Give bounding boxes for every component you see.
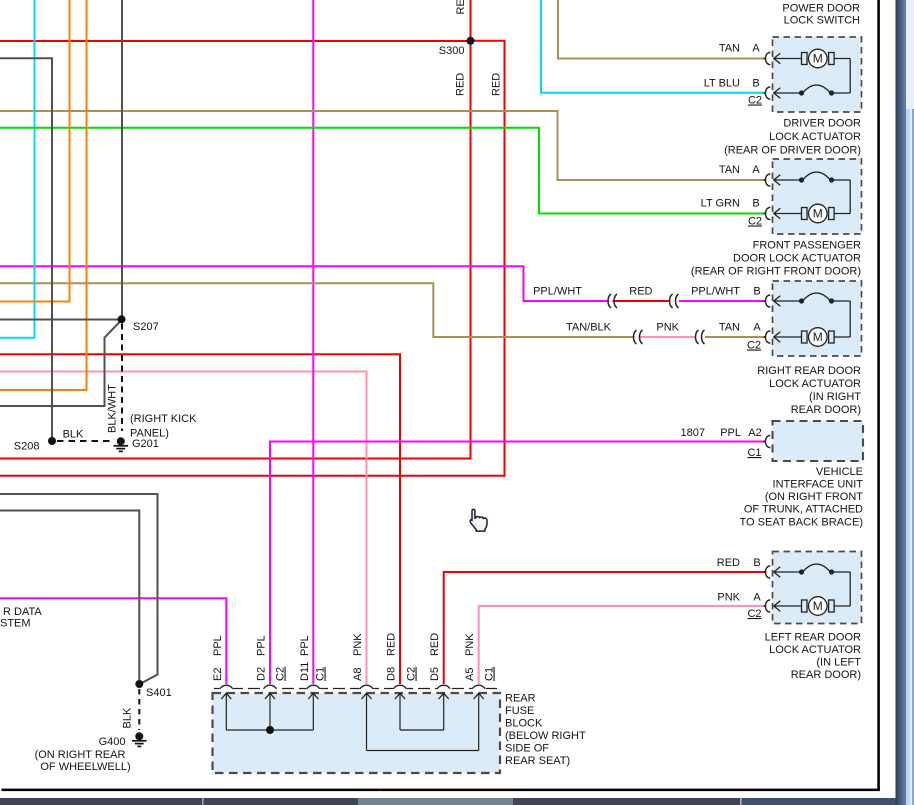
svg-text:M: M [813, 330, 823, 344]
front passenger door lock actuator U2 motor wires [774, 213, 850, 215]
wire GRY left from splice S207 [0, 319, 122, 321]
wire TAN to driver door actuator A [558, 0, 767, 59]
taskbar right segment [742, 798, 896, 805]
svg-text:SIDE OF: SIDE OF [505, 743, 549, 755]
svg-text:RED: RED [629, 286, 652, 298]
left rear door lock actuator U4 switch contact [799, 564, 834, 575]
front passenger door lock actuator U2 pin A arrow [774, 175, 781, 185]
right rear door lock actuator U3 pin B arrow [774, 296, 781, 306]
wire PPL/WHT to right rear actuator B [0, 266, 609, 301]
driver door lock actuator U1 box [773, 37, 862, 112]
svg-text:(BELOW RIGHT: (BELOW RIGHT [505, 730, 586, 742]
fuse block pin A5 connector bump [472, 684, 486, 690]
svg-text:(REAR OF DRIVER DOOR): (REAR OF DRIVER DOOR) [724, 145, 861, 157]
svg-text:PPL: PPL [256, 635, 268, 656]
svg-text:VEHICLE: VEHICLE [816, 466, 863, 478]
svg-text:A: A [753, 322, 761, 334]
svg-text:A: A [752, 43, 760, 55]
splice S401 [135, 680, 143, 688]
svg-text:(IN RIGHT: (IN RIGHT [809, 391, 861, 403]
fuse block pin D11 arrow [308, 693, 318, 699]
svg-text:E2: E2 [212, 668, 224, 681]
svg-text:C2: C2 [406, 667, 418, 681]
left rear door lock actuator U4 pin A arrow [774, 601, 781, 611]
svg-text:TAN/BLK: TAN/BLK [566, 322, 612, 334]
svg-text:G201: G201 [132, 438, 159, 450]
wire TAN/BLK to right rear actuator A [0, 283, 635, 337]
fuse block pin A5 internal wire [478, 694, 480, 751]
svg-text:PPL: PPL [212, 635, 224, 656]
svg-text:A: A [753, 592, 761, 604]
svg-text:(IN LEFT: (IN LEFT [816, 657, 861, 669]
fuse block pin D5 connector bump [437, 684, 451, 690]
wire RED vertical through S300 down then left [0, 0, 471, 459]
svg-text:REAR SEAT): REAR SEAT) [505, 755, 570, 767]
svg-text:TO SEAT BACK BRACE): TO SEAT BACK BRACE) [740, 517, 863, 529]
wire PPL/WHT segment at right rear B [679, 300, 767, 302]
left rear door lock actuator U4 box [773, 552, 862, 624]
left rear door lock actuator U4 motor M [802, 597, 835, 616]
svg-text:(ON RIGHT REAR: (ON RIGHT REAR [35, 749, 126, 761]
fuse block internal junction at D2 [266, 726, 274, 734]
svg-text:C2: C2 [275, 667, 287, 681]
svg-text:PNK: PNK [656, 322, 679, 334]
mouse cursor hand pointer [470, 509, 487, 531]
driver door lock actuator U1 motor wires [774, 58, 850, 60]
svg-text:RED: RED [386, 633, 398, 656]
svg-text:LT GRN: LT GRN [701, 198, 740, 210]
svg-text:A: A [752, 164, 760, 176]
svg-text:(REAR OF RIGHT FRONT DOOR): (REAR OF RIGHT FRONT DOOR) [691, 266, 861, 278]
right rear door lock actuator U3 box [773, 281, 862, 356]
svg-text:OF TRUNK, ATTACHED: OF TRUNK, ATTACHED [744, 504, 863, 516]
svg-text:R DATA: R DATA [3, 606, 42, 618]
svg-text:RIGHT REAR DOOR: RIGHT REAR DOOR [757, 365, 861, 377]
svg-text:S207: S207 [133, 321, 159, 333]
svg-text:C2: C2 [748, 95, 762, 107]
ground G201 [114, 437, 129, 451]
svg-text:M: M [813, 599, 823, 613]
svg-text:BLK: BLK [122, 707, 134, 728]
driver door lock actuator U1 right internal wire [849, 59, 851, 94]
svg-text:RED: RED [455, 73, 467, 96]
svg-text:A8: A8 [352, 668, 364, 681]
page frame bottom border [2, 789, 380, 792]
svg-text:1807: 1807 [681, 427, 705, 439]
scrollbar thumb upper [906, 0, 914, 109]
fuse block pin A8 arrow [362, 693, 372, 699]
svg-text:D8: D8 [386, 667, 398, 681]
fuse block pin E2 connector bump [220, 684, 234, 690]
wire PNK left rear actuator A to fuse pin A5 [479, 606, 767, 685]
svg-text:C1: C1 [747, 447, 761, 459]
svg-text:OF WHEELWELL): OF WHEELWELL) [40, 761, 130, 773]
wire TAN to front passenger actuator A [0, 111, 767, 180]
svg-text:B: B [752, 78, 759, 90]
wire PNK to fuse pin A8 [0, 372, 367, 686]
right rear door lock actuator U3 right internal wire [849, 301, 851, 337]
wire ORN left exit lower [0, 0, 87, 390]
svg-text:S300: S300 [439, 45, 465, 57]
wire TAN segment at right rear A [705, 336, 767, 338]
svg-text:(ON RIGHT FRONT: (ON RIGHT FRONT [765, 491, 863, 503]
fuse block internal bus A8-A5 [367, 750, 479, 752]
svg-text:D11: D11 [299, 662, 311, 681]
svg-text:LOCK ACTUATOR: LOCK ACTUATOR [769, 131, 861, 143]
fuse block pin E2 internal wire [225, 694, 227, 731]
fuse block pin D8 arrow [395, 693, 405, 699]
wire PPL to fuse pin E2 [0, 598, 226, 685]
svg-text:RED: RED [491, 73, 503, 96]
front passenger door lock actuator U2 right internal wire [849, 180, 851, 214]
right rear door lock actuator U3 switch wires [774, 300, 850, 302]
wire BLK/WHT dashed S207 to G201 [121, 324, 123, 432]
left rear door lock actuator U4 pin B arrow [774, 567, 781, 577]
svg-text:C1: C1 [484, 667, 496, 681]
fuse block pin D2 internal wire [269, 694, 271, 731]
svg-text:BLK: BLK [63, 429, 84, 441]
svg-text:G400: G400 [99, 736, 126, 748]
fuse block connector line [214, 688, 497, 690]
svg-text:B: B [753, 286, 760, 298]
wire RED left rear actuator B to fuse pin D5 [444, 572, 767, 685]
wire ORN left exit upper [0, 0, 70, 302]
wire BLK dashed S401 to G400 [138, 689, 140, 730]
right rear door lock actuator U3 pin A arrow [774, 332, 781, 342]
svg-text:TAN: TAN [719, 322, 740, 334]
svg-text:D2: D2 [256, 667, 268, 681]
fuse block pin A8 connector bump [360, 684, 374, 690]
fuse block internal bus E2-D2-D11 [226, 729, 313, 731]
fuse block pin D8 internal wire [399, 694, 401, 731]
fuse block pin D8 connector bump [393, 684, 407, 690]
svg-text:PNK: PNK [352, 633, 364, 656]
svg-text:LOCK SWITCH: LOCK SWITCH [784, 15, 860, 27]
wire GRY inner to splice S401 [0, 511, 139, 681]
svg-text:M: M [813, 207, 823, 221]
taskbar [0, 798, 896, 805]
driver door lock actuator U1 connector half at pin B [764, 87, 770, 99]
fuse block pin D2 arrow [265, 693, 275, 699]
svg-text:LOCK ACTUATOR: LOCK ACTUATOR [769, 644, 861, 656]
svg-text:PPL/WHT: PPL/WHT [691, 286, 740, 298]
wire GRY to splice S208 [0, 58, 52, 437]
fuse block pin A5 arrow [474, 693, 484, 699]
svg-text:PPL/WHT: PPL/WHT [533, 286, 582, 298]
front passenger door lock actuator U2 connector half at pin A [764, 174, 770, 186]
wire PNK segment inline right rear A [639, 336, 696, 338]
svg-text:RED: RED [429, 633, 441, 656]
vehicle interface unit connector half at pin A2 [764, 435, 770, 447]
svg-text:POWER DOOR: POWER DOOR [782, 3, 860, 15]
fuse block pin D2 connector bump [263, 684, 277, 690]
right rear door lock actuator U3 motor M [802, 328, 835, 347]
right rear door lock actuator U3 switch contact [799, 293, 834, 304]
wire LT BLU to driver door actuator B [541, 0, 767, 93]
svg-text:PPL: PPL [720, 427, 741, 439]
front passenger door lock actuator U2 connector half at pin B [764, 207, 770, 219]
svg-text:A5: A5 [464, 668, 476, 681]
svg-text:C2: C2 [747, 340, 761, 352]
driver door lock actuator U1 switch wires [774, 92, 850, 94]
svg-text:C2: C2 [748, 216, 762, 228]
splice S208 [48, 437, 56, 445]
svg-text:M: M [813, 52, 823, 66]
right rear door lock actuator U3 motor wires [774, 336, 850, 338]
splice S207 [118, 315, 126, 323]
front passenger door lock actuator U2 box [773, 159, 862, 234]
fuse block pin A8 internal wire [366, 694, 368, 751]
taskbar light segment [358, 798, 513, 805]
svg-text:FUSE: FUSE [505, 705, 534, 717]
svg-text:D5: D5 [429, 667, 441, 681]
fuse block pin D5 internal wire [443, 694, 445, 731]
driver door lock actuator U1 connector half at pin A [764, 52, 770, 64]
svg-text:BLOCK: BLOCK [505, 717, 543, 729]
front passenger door lock actuator U2 switch contact [799, 172, 834, 183]
splice S300 [467, 37, 475, 45]
wire BLK dashed S208 to G201 [57, 440, 114, 442]
driver door lock actuator U1 pin B arrow [774, 88, 781, 98]
wire RED elbow from S300 right then down then left [0, 41, 505, 476]
wire RED segment inline right rear B [613, 300, 670, 302]
driver door lock actuator U1 switch contact [799, 85, 834, 96]
front passenger door lock actuator U2 switch wires [774, 179, 850, 181]
svg-text:REAR DOOR): REAR DOOR) [791, 669, 861, 681]
svg-text:B: B [753, 557, 760, 569]
svg-text:REAR DOOR): REAR DOOR) [791, 404, 861, 416]
wire LT GRN to front passenger actuator B [0, 128, 767, 214]
svg-text:PPL: PPL [299, 635, 311, 656]
driver door lock actuator U1 pin A arrow [774, 53, 781, 63]
svg-text:S208: S208 [14, 441, 40, 453]
inline connector right rear B left [608, 294, 611, 308]
front passenger door lock actuator U2 motor M [802, 204, 835, 223]
wire GRY vertical to splice S207 [121, 0, 123, 316]
svg-text:RED: RED [455, 0, 467, 15]
wire RED to fuse pin D8 [0, 354, 400, 685]
wire PPL vertical to fuse pin D11 [312, 0, 314, 685]
svg-text:PNK: PNK [464, 633, 476, 656]
taskbar divider 2 [740, 798, 742, 805]
left rear door lock actuator U4 motor wires [774, 605, 850, 607]
inline connector right rear B right [670, 294, 673, 308]
svg-text:C2: C2 [747, 608, 761, 620]
svg-text:B: B [752, 198, 759, 210]
wire GRY branch from S207 down-left [0, 320, 122, 406]
svg-text:STEM: STEM [0, 618, 31, 630]
svg-text:REAR: REAR [505, 692, 536, 704]
front passenger door lock actuator U2 pin B arrow [774, 208, 781, 218]
svg-text:TAN: TAN [719, 43, 740, 55]
page frame right border [877, 0, 880, 791]
svg-text:C1: C1 [315, 667, 327, 681]
wire GRY outer to splice S401 [0, 494, 158, 684]
rear fuse block [213, 693, 501, 773]
fuse block pin D11 connector bump [307, 684, 321, 690]
fuse block pin D11 internal wire [312, 694, 314, 731]
wire RED horizontal to S300 [0, 40, 467, 42]
svg-text:DOOR LOCK ACTUATOR: DOOR LOCK ACTUATOR [733, 253, 861, 265]
wire PPL 1807 to vehicle interface unit and fuse pin D2 [270, 442, 766, 686]
svg-text:FRONT PASSENGER: FRONT PASSENGER [753, 240, 861, 252]
right rear door lock actuator U3 connector half at pin A [764, 331, 770, 343]
left rear door lock actuator U4 connector half at pin A [764, 600, 770, 612]
inline connector right rear A left [634, 330, 637, 344]
right rear door lock actuator U3 connector half at pin B [764, 295, 770, 307]
taskbar divider 1 [202, 798, 204, 805]
wire LT BLU left exit [0, 0, 35, 338]
fuse block internal bus D8-D5 [400, 729, 444, 731]
svg-text:S401: S401 [146, 687, 172, 699]
left rear door lock actuator U4 connector half at pin B [764, 566, 770, 578]
svg-text:LT BLU: LT BLU [704, 78, 740, 90]
inline connector right rear A right [696, 330, 699, 344]
scrollbar track lower [906, 109, 914, 805]
svg-text:LOCK ACTUATOR: LOCK ACTUATOR [769, 378, 861, 390]
driver door lock actuator U1 motor M [802, 49, 835, 68]
svg-text:BLK/WHT: BLK/WHT [107, 384, 119, 433]
svg-text:A2: A2 [748, 427, 761, 439]
fuse block pin D5 arrow [439, 693, 449, 699]
svg-text:RED: RED [717, 557, 740, 569]
svg-text:INTERFACE UNIT: INTERFACE UNIT [773, 479, 864, 491]
fuse block pin E2 arrow [221, 693, 231, 699]
svg-text:(RIGHT KICK: (RIGHT KICK [130, 413, 197, 425]
svg-text:DRIVER DOOR: DRIVER DOOR [783, 118, 861, 130]
left rear door lock actuator U4 right internal wire [849, 572, 851, 606]
left rear door lock actuator U4 switch wires [774, 571, 850, 573]
svg-text:TAN: TAN [719, 164, 740, 176]
ground G400 [132, 732, 147, 746]
svg-text:PNK: PNK [717, 592, 740, 604]
vehicle interface unit box [773, 421, 864, 461]
svg-text:LEFT REAR DOOR: LEFT REAR DOOR [765, 632, 861, 644]
